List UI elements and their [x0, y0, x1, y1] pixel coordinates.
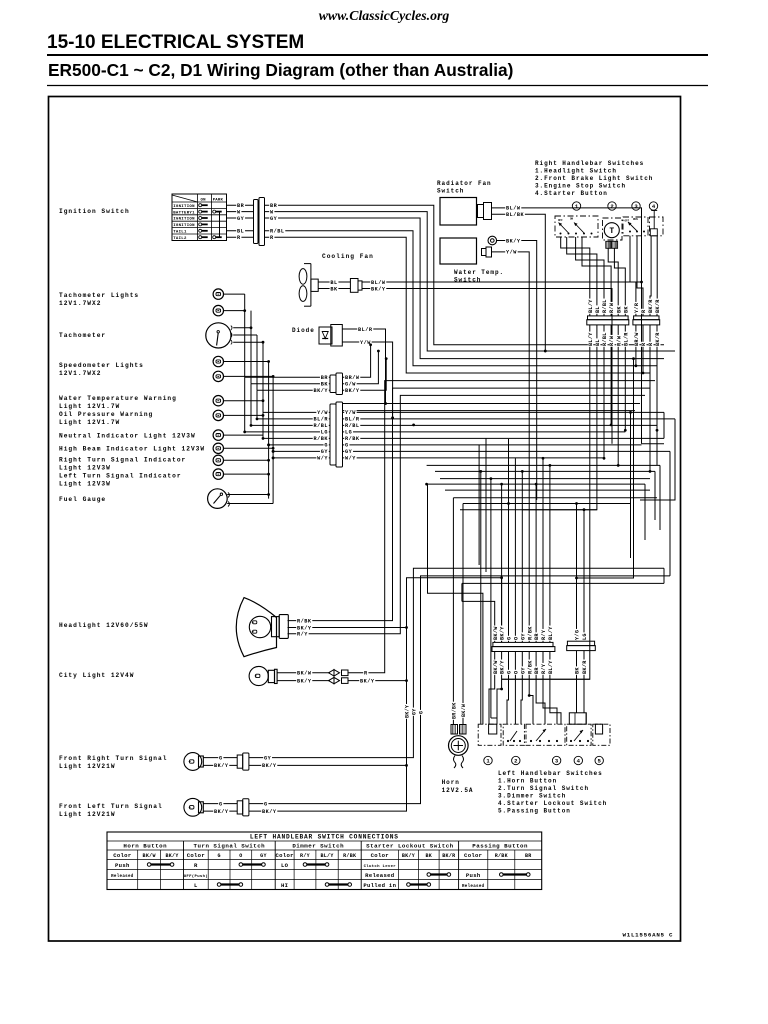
- bus junction dots: [507, 502, 510, 505]
- front right turn signal harness: [249, 568, 664, 757]
- indicator bulb op: [213, 410, 223, 420]
- svg-text:BL/Y: BL/Y: [548, 626, 554, 640]
- svg-text:Diode: Diode: [292, 327, 315, 334]
- svg-text:Radiator Fan: Radiator Fan: [437, 180, 492, 187]
- fuel gauge stub wires: [227, 494, 268, 496]
- engine stop drop wires: [630, 236, 636, 316]
- circled number 4: [649, 202, 657, 210]
- svg-text:BL/Y: BL/Y: [548, 660, 554, 674]
- svg-text:Y/R: Y/R: [634, 302, 640, 313]
- connector A labels below: [588, 332, 593, 347]
- svg-text:BK: BK: [425, 853, 432, 859]
- svg-text:BL: BL: [330, 280, 337, 286]
- indicator bulb lt: [213, 469, 223, 479]
- connector C labels above: [493, 626, 498, 641]
- svg-text:BK/Y: BK/Y: [297, 678, 312, 684]
- svg-text:Headlight 12V60/55W: Headlight 12V60/55W: [59, 622, 149, 629]
- bus wires upper: [343, 403, 641, 405]
- svg-text:Left Handlebar Switches: Left Handlebar Switches: [498, 770, 603, 777]
- svg-text:Front Left Turn Signal: Front Left Turn Signal: [59, 803, 163, 810]
- svg-text:ON: ON: [201, 198, 207, 202]
- diode box: [319, 327, 332, 344]
- svg-text:BK: BK: [330, 286, 338, 292]
- meter 8-pin connector: [330, 404, 336, 465]
- svg-text:O: O: [514, 671, 520, 674]
- svg-text:BK/Y: BK/Y: [314, 388, 329, 394]
- svg-text:R/BL: R/BL: [602, 332, 608, 346]
- svg-text:HI: HI: [281, 882, 288, 889]
- svg-text:BR: BR: [270, 203, 278, 209]
- svg-text:R: R: [648, 342, 654, 346]
- svg-text:BR: BR: [525, 853, 532, 859]
- svg-text:Light 12V3W: Light 12V3W: [59, 481, 111, 488]
- svg-text:BL/R: BL/R: [314, 417, 329, 423]
- starter lockout switch blade: [570, 740, 572, 742]
- bulb stub wires: [223, 293, 245, 295]
- connector B labels above: [634, 302, 639, 314]
- svg-text:G: G: [324, 443, 328, 449]
- svg-text:BK/Y: BK/Y: [500, 660, 506, 674]
- svg-text:Released: Released: [365, 872, 394, 879]
- cooling fan connector: [350, 279, 358, 293]
- svg-text:BK/Y: BK/Y: [402, 853, 415, 859]
- front right turn signal connector: [237, 755, 243, 768]
- svg-text:BATTERY1: BATTERY1: [173, 211, 195, 215]
- indicator bulb t1: [213, 289, 223, 299]
- svg-text:Water Temp.: Water Temp.: [454, 269, 504, 276]
- svg-text:BK/W: BK/W: [297, 671, 312, 677]
- diode wires: [342, 329, 385, 404]
- svg-text:BK/Y: BK/Y: [262, 809, 277, 815]
- svg-text:Released: Released: [462, 884, 485, 889]
- svg-text:ON: ON: [570, 218, 574, 221]
- svg-text:Water Temperature Warning: Water Temperature Warning: [59, 395, 177, 402]
- svg-text:R: R: [641, 309, 647, 313]
- svg-text:R/W: R/W: [609, 335, 615, 346]
- front right turn signal wires: [203, 757, 237, 759]
- svg-text:BK/Y: BK/Y: [500, 626, 506, 640]
- indicator bulb wt: [213, 396, 223, 406]
- meter 3-pin connector: [330, 375, 336, 393]
- svg-text:R/W: R/W: [609, 302, 615, 313]
- svg-text:BK/Y: BK/Y: [297, 625, 312, 631]
- connector B labels below: [634, 332, 639, 347]
- headlight socket: [272, 617, 280, 637]
- horn body: [449, 736, 469, 756]
- svg-text:Horn Button: Horn Button: [123, 843, 167, 850]
- svg-text:Color: Color: [113, 852, 131, 859]
- ignition switch table: [172, 194, 227, 241]
- svg-text:Light 12V1.7W: Light 12V1.7W: [59, 419, 120, 426]
- svg-text:LG: LG: [321, 430, 328, 436]
- svg-text:BR: BR: [534, 633, 540, 640]
- circled number 2: [608, 202, 616, 210]
- water temp switch ring terminal: [488, 236, 497, 245]
- svg-text:R/BK: R/BK: [527, 626, 533, 640]
- svg-text:BK: BK: [575, 667, 581, 674]
- heading rule: [47, 54, 708, 56]
- connector C labels below: [493, 660, 498, 675]
- svg-text:LG: LG: [582, 633, 588, 640]
- svg-text:G: G: [507, 637, 513, 640]
- svg-text:BR/W: BR/W: [634, 332, 640, 346]
- radiator fan switch box: [440, 198, 477, 226]
- starter button box (dashed): [650, 217, 664, 236]
- svg-text:BR: BR: [321, 375, 329, 381]
- svg-text:Color: Color: [371, 852, 389, 859]
- svg-text:Y/W: Y/W: [506, 250, 517, 256]
- svg-text:Light 12V3W: Light 12V3W: [59, 465, 111, 472]
- svg-text:R: R: [237, 235, 241, 241]
- cooling fan wires: [318, 281, 350, 283]
- svg-text:GY: GY: [321, 449, 329, 455]
- table column rules: [137, 850, 139, 890]
- svg-text:BK/Y: BK/Y: [165, 853, 178, 859]
- horn legs: [454, 756, 456, 769]
- svg-text:TAIL2: TAIL2: [173, 237, 187, 241]
- front left turn signal harness: [249, 576, 670, 804]
- svg-text:R/BL: R/BL: [602, 299, 608, 313]
- svg-text:GY: GY: [264, 755, 272, 761]
- svg-text:BL/R: BL/R: [358, 327, 373, 333]
- svg-text:Tachometer: Tachometer: [59, 332, 106, 339]
- starter button drop wires: [650, 236, 651, 316]
- svg-text:Ignition Switch: Ignition Switch: [59, 208, 130, 215]
- connector C (left switches): [493, 642, 553, 646]
- svg-text:Light 12V21W: Light 12V21W: [59, 811, 116, 818]
- connector D labels below: [575, 666, 580, 674]
- svg-text:BK: BK: [321, 382, 329, 388]
- svg-text:Front Right Turn Signal: Front Right Turn Signal: [59, 755, 167, 762]
- svg-text:Light 12V21W: Light 12V21W: [59, 763, 116, 770]
- svg-text:O: O: [239, 853, 242, 859]
- tachometer gauge: [206, 323, 231, 348]
- svg-text:G: G: [345, 443, 349, 449]
- water temp switch BK/Y wire: [497, 241, 537, 500]
- ignition harness wires: [265, 205, 665, 345]
- svg-text:3.Engine Stop Switch: 3.Engine Stop Switch: [535, 183, 626, 190]
- svg-text:R/BL: R/BL: [270, 229, 284, 235]
- svg-text:4.Starter Button: 4.Starter Button: [535, 190, 608, 197]
- svg-text:GY: GY: [237, 216, 245, 222]
- svg-text:Push: Push: [115, 862, 130, 869]
- front brake light switch (dashed): [603, 218, 623, 240]
- svg-text:BK/Y: BK/Y: [345, 388, 360, 394]
- bus wires lower: [427, 464, 660, 466]
- svg-text:R/Y: R/Y: [297, 632, 308, 638]
- svg-text:BL/W: BL/W: [506, 206, 521, 212]
- svg-text:ER500-C1 ~ C2, D1 Wiring Diagr: ER500-C1 ~ C2, D1 Wiring Diagram (other …: [48, 60, 513, 80]
- connector A (right switches): [588, 316, 629, 320]
- right switch harness drops: [502, 325, 590, 679]
- svg-text:RUN: RUN: [633, 218, 638, 221]
- svg-text:BL/Y: BL/Y: [588, 332, 594, 346]
- cooling fan propeller: [299, 269, 307, 285]
- subheading rule: [47, 85, 708, 87]
- circled number 1: [572, 202, 580, 210]
- svg-text:R/W: R/W: [616, 335, 622, 346]
- svg-text:BK: BK: [616, 306, 622, 313]
- svg-text:BK: BK: [623, 306, 629, 313]
- svg-text:OFF: OFF: [558, 219, 563, 222]
- svg-text:BK/Y: BK/Y: [214, 809, 229, 815]
- svg-text:Starter Lockout Switch: Starter Lockout Switch: [366, 843, 454, 850]
- svg-text:Push: Push: [466, 872, 481, 879]
- svg-text:IGNITION: IGNITION: [173, 218, 195, 222]
- brake switch plungers: [606, 241, 611, 248]
- svg-text:R: R: [641, 342, 647, 346]
- svg-text:Y/G: Y/G: [575, 630, 581, 640]
- svg-text:R/BL: R/BL: [345, 423, 359, 429]
- svg-text:BL/Y: BL/Y: [588, 299, 594, 313]
- svg-text:BL/R: BL/R: [345, 417, 360, 423]
- left switch circled numbers: [484, 756, 492, 764]
- svg-text:G/W: G/W: [345, 382, 356, 388]
- svg-text:4.Starter Lockout Switch: 4.Starter Lockout Switch: [498, 800, 607, 807]
- svg-text:Passing Button: Passing Button: [472, 843, 528, 850]
- svg-text:BL: BL: [595, 306, 601, 313]
- svg-text:BK/R: BK/R: [655, 332, 661, 346]
- svg-text:LG: LG: [345, 430, 352, 436]
- svg-text:R/BK: R/BK: [297, 618, 312, 624]
- svg-text:R: R: [194, 862, 198, 869]
- fuel gauge: [208, 489, 228, 509]
- ignition switch ON contacts: [199, 204, 202, 207]
- circled number 3: [632, 202, 640, 210]
- svg-text:BR: BR: [237, 203, 245, 209]
- svg-text:GY: GY: [520, 667, 526, 674]
- svg-text:R/BL: R/BL: [314, 423, 328, 429]
- connector D wires below: [576, 651, 578, 713]
- long bus wire to lower right: [462, 582, 664, 584]
- meter 8-pin labels: [344, 410, 356, 415]
- front left turn signal connector: [237, 801, 243, 814]
- left handlebar switch connections table: [107, 832, 542, 890]
- svg-text:Turn Signal Switch: Turn Signal Switch: [194, 843, 266, 850]
- svg-text:R/Y: R/Y: [300, 853, 310, 859]
- svg-text:BK/Y: BK/Y: [506, 238, 521, 244]
- svg-text:Color: Color: [276, 852, 294, 859]
- svg-text:R/BK: R/BK: [314, 436, 329, 442]
- indicator bulb rt: [213, 455, 223, 465]
- svg-text:12V1.7WX2: 12V1.7WX2: [59, 370, 101, 377]
- svg-text:15-10 ELECTRICAL SYSTEM: 15-10 ELECTRICAL SYSTEM: [47, 32, 304, 53]
- wires from right mesh into left switches: [502, 678, 590, 680]
- svg-text:R/BK: R/BK: [495, 853, 508, 859]
- svg-text:GY: GY: [270, 216, 278, 222]
- indicator bulb nt: [213, 430, 223, 440]
- city light bulb: [249, 666, 268, 685]
- right edge bends: [663, 412, 665, 438]
- connector C wires above: [462, 601, 495, 642]
- svg-text:GY: GY: [411, 708, 417, 715]
- svg-text:Released: Released: [111, 874, 134, 879]
- svg-text:1.Headlight Switch: 1.Headlight Switch: [535, 168, 617, 175]
- svg-text:Right Handlebar Switches: Right Handlebar Switches: [535, 160, 644, 167]
- ignition switch wires to connector: [227, 204, 254, 206]
- brake switch drop wires: [608, 248, 618, 316]
- connector A labels above: [588, 299, 593, 314]
- svg-text:GY: GY: [520, 633, 526, 640]
- svg-text:TAIL1: TAIL1: [173, 231, 187, 235]
- svg-text:BK/Y: BK/Y: [360, 678, 375, 684]
- svg-text:5.Passing Button: 5.Passing Button: [498, 808, 571, 815]
- svg-text:Color: Color: [464, 852, 482, 859]
- svg-text:OFF(Push): OFF(Push): [184, 874, 208, 879]
- city light butt connectors: [329, 670, 340, 676]
- front right turn signal bulb: [184, 753, 202, 771]
- svg-text:BR: BR: [534, 667, 540, 674]
- svg-text:BR/BK: BR/BK: [451, 702, 457, 719]
- ignition switch PARK contacts: [213, 210, 216, 213]
- svg-text:Right Turn Signal Indicator: Right Turn Signal Indicator: [59, 457, 186, 464]
- svg-text:BK/R: BK/R: [655, 299, 661, 313]
- svg-text:BK/W: BK/W: [461, 704, 467, 717]
- svg-text:BK/Y: BK/Y: [404, 705, 410, 718]
- svg-text:R/BK: R/BK: [345, 436, 360, 442]
- svg-text:G: G: [219, 755, 223, 761]
- svg-text:12V2.5A: 12V2.5A: [442, 787, 474, 794]
- svg-text:GY: GY: [260, 853, 267, 859]
- svg-text:3.Dimmer Switch: 3.Dimmer Switch: [498, 793, 566, 800]
- radiator fan switch wires: [492, 208, 642, 444]
- tachometer stub wires: [233, 327, 251, 329]
- svg-text:2.Front Brake Light Switch: 2.Front Brake Light Switch: [535, 175, 653, 182]
- svg-text:G: G: [219, 801, 223, 807]
- svg-text:2.Turn Signal Switch: 2.Turn Signal Switch: [498, 785, 589, 792]
- starter lockout connector: [569, 713, 586, 724]
- meter 3-pin wires: [245, 376, 330, 378]
- svg-text:G: G: [507, 671, 513, 674]
- left switch wires from connector C to boxes: [489, 676, 495, 724]
- connector D (left switches): [567, 641, 594, 645]
- svg-text:Y/W: Y/W: [317, 410, 328, 416]
- svg-text:OFF: OFF: [625, 220, 630, 223]
- meter 3-pin labels: [344, 375, 360, 380]
- svg-text:City Light 12V4W: City Light 12V4W: [59, 672, 134, 679]
- svg-text:BK/R: BK/R: [648, 299, 654, 313]
- svg-text:BK/W: BK/W: [493, 660, 499, 674]
- indicator bulb t2: [213, 305, 223, 315]
- svg-text:Dimmer Switch: Dimmer Switch: [292, 843, 344, 850]
- engine stop switch box (dashed): [623, 217, 648, 236]
- bus wires from meter connector: [343, 411, 665, 413]
- connector C wires below: [494, 652, 496, 677]
- svg-text:R/Y: R/Y: [541, 663, 547, 674]
- svg-text:Neutral Indicator Light 12V3W: Neutral Indicator Light 12V3W: [59, 433, 196, 440]
- mesh wedge verticals feeding lower connectors: [480, 471, 482, 724]
- svg-text:Fuel Gauge: Fuel Gauge: [59, 496, 106, 503]
- indicator bulb s2: [213, 371, 223, 381]
- city light socket: [268, 670, 274, 682]
- svg-text:Light 12V1.7W: Light 12V1.7W: [59, 403, 120, 410]
- headlight shell: [236, 598, 276, 657]
- headlight wires: [288, 388, 651, 620]
- svg-text:GY: GY: [345, 449, 353, 455]
- connector B (right switches): [634, 316, 659, 320]
- meter harness verticals: [244, 294, 246, 377]
- svg-text:PARK: PARK: [213, 198, 224, 202]
- svg-text:High Beam Indicator Light 12V3: High Beam Indicator Light 12V3W: [59, 446, 205, 453]
- water temp switch box: [440, 238, 477, 264]
- water temp switch Y/W wire: [492, 252, 530, 404]
- svg-text:BK/Y: BK/Y: [262, 763, 277, 769]
- svg-text:Speedometer Lights: Speedometer Lights: [59, 362, 144, 369]
- svg-text:BK/Y: BK/Y: [214, 763, 229, 769]
- svg-text:BK/Y: BK/Y: [371, 286, 386, 292]
- svg-text:L: L: [194, 882, 198, 889]
- svg-text:BR/W: BR/W: [345, 375, 360, 381]
- svg-text:IGNITION: IGNITION: [173, 205, 195, 209]
- svg-text:R/BK: R/BK: [527, 660, 533, 674]
- svg-text:Cooling Fan: Cooling Fan: [322, 253, 374, 260]
- svg-text:Y/W: Y/W: [345, 410, 356, 416]
- horn connectors: [451, 725, 458, 735]
- svg-text:Pulled in: Pulled in: [363, 882, 396, 889]
- svg-text:R/Y: R/Y: [541, 629, 547, 640]
- turn signal switch blade: [507, 740, 509, 742]
- front left turn signal wires: [203, 803, 237, 805]
- svg-text:BL/BK: BL/BK: [506, 212, 524, 218]
- svg-text:BK/W: BK/W: [143, 853, 156, 859]
- svg-text:1.Horn Button: 1.Horn Button: [498, 778, 557, 785]
- dimmer switch blade: [530, 740, 532, 742]
- svg-text:W1L1556AN5 C: W1L1556AN5 C: [623, 932, 674, 939]
- headlight switch box (dashed): [555, 216, 598, 237]
- svg-text:Color: Color: [187, 852, 205, 859]
- diode symbol: [322, 331, 328, 333]
- ignition switch connector: [254, 200, 259, 244]
- cooling fan motor: [311, 279, 318, 291]
- svg-text:R: R: [270, 235, 274, 241]
- svg-text:BK/W: BK/W: [493, 626, 499, 640]
- svg-text:LO: LO: [281, 862, 289, 869]
- svg-text:Switch: Switch: [437, 188, 464, 195]
- water temp switch connector: [482, 249, 487, 256]
- svg-text:BK/R: BK/R: [442, 853, 455, 859]
- horn button contact block: [489, 724, 497, 734]
- svg-text:Horn: Horn: [442, 779, 460, 786]
- svg-text:W: W: [237, 209, 241, 215]
- svg-text:Switch: Switch: [454, 277, 481, 284]
- turn signal riser labels: [405, 704, 410, 719]
- svg-text:www.ClassicCycles.org: www.ClassicCycles.org: [319, 8, 450, 23]
- svg-text:W: W: [270, 209, 274, 215]
- svg-text:BL: BL: [595, 339, 601, 346]
- meter 8-pin left wires: [263, 411, 330, 413]
- svg-text:IGNITION: IGNITION: [173, 224, 195, 228]
- headlight bulb: [249, 616, 270, 637]
- indicator bulb hb: [213, 443, 223, 453]
- svg-text:W/Y: W/Y: [345, 456, 356, 462]
- svg-text:12V1.7WX2: 12V1.7WX2: [59, 300, 101, 307]
- connector D labels above: [575, 629, 580, 641]
- harness trunk verticals right: [577, 359, 634, 578]
- city light wires: [277, 672, 330, 674]
- svg-text:Left Turn Signal Indicator: Left Turn Signal Indicator: [59, 473, 182, 480]
- radiator fan switch connector: [478, 205, 484, 218]
- right switch drop wires to connector A: [561, 237, 590, 316]
- svg-text:Tachometer Lights: Tachometer Lights: [59, 292, 139, 299]
- svg-text:BL/Y: BL/Y: [320, 853, 333, 859]
- left switch boxes (dash-dot): [478, 724, 501, 745]
- svg-text:G: G: [264, 801, 268, 807]
- svg-text:R: R: [364, 671, 368, 677]
- svg-text:G: G: [419, 711, 425, 714]
- svg-text:BL/W: BL/W: [371, 280, 386, 286]
- city light harness wires: [348, 381, 656, 673]
- svg-text:Clutch Lever: Clutch Lever: [364, 864, 397, 869]
